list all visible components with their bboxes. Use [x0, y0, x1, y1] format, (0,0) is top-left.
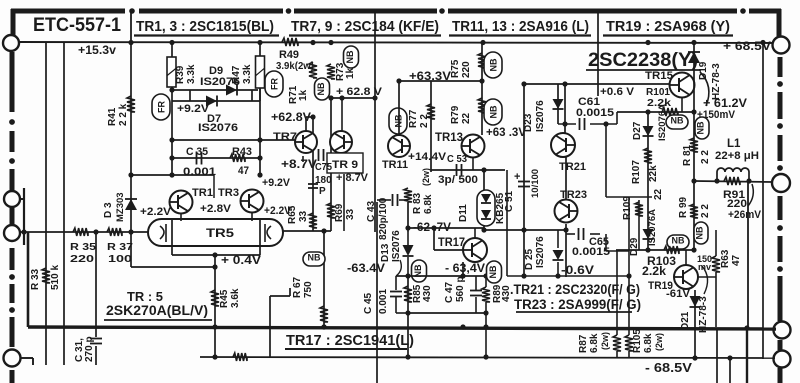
svg-text:(2w): (2w) — [600, 332, 610, 350]
svg-text:22: 22 — [461, 112, 472, 124]
svg-text:3.3k: 3.3k — [242, 64, 253, 84]
svg-text:D 25: D 25 — [524, 248, 535, 270]
svg-text:+ 0.4V: + 0.4V — [221, 255, 261, 267]
svg-text:560 p: 560 p — [455, 276, 466, 302]
svg-text:+14.4V: +14.4V — [408, 151, 447, 163]
svg-text:KB265: KB265 — [495, 192, 506, 224]
svg-text:TR7, 9 : 2SC184 (KF/E): TR7, 9 : 2SC184 (KF/E) — [291, 18, 439, 35]
svg-text:820p/100: 820p/100 — [378, 197, 389, 240]
svg-text:47: 47 — [238, 165, 249, 177]
svg-text:0.001: 0.001 — [183, 166, 216, 178]
svg-text:R79: R79 — [450, 105, 461, 124]
svg-text:D 3: D 3 — [103, 202, 114, 218]
svg-text:D27: D27 — [632, 121, 643, 140]
svg-text:TR21: TR21 — [559, 161, 586, 173]
svg-text:33: 33 — [298, 210, 309, 222]
svg-text:2 2: 2 2 — [419, 114, 430, 128]
svg-text:1k: 1k — [298, 89, 309, 101]
svg-text:R 83: R 83 — [412, 192, 423, 214]
svg-text:22: 22 — [653, 188, 664, 200]
svg-text:22k: 22k — [648, 165, 659, 182]
svg-text:270 p: 270 p — [84, 336, 95, 362]
svg-text:R87: R87 — [578, 334, 589, 353]
svg-text:47: 47 — [731, 254, 742, 266]
svg-text:C 47: C 47 — [444, 281, 455, 303]
svg-text:C 45: C 45 — [363, 292, 374, 314]
svg-text:R39: R39 — [175, 65, 186, 84]
svg-text:TR19 : 2SA968 (Y): TR19 : 2SA968 (Y) — [606, 18, 730, 35]
svg-text:R 67: R 67 — [292, 276, 303, 298]
svg-text:R43: R43 — [232, 146, 252, 158]
svg-text:R109: R109 — [622, 196, 633, 220]
svg-text:ETC-557-1: ETC-557-1 — [33, 15, 121, 36]
svg-text:R105: R105 — [632, 329, 643, 353]
svg-text:.TR21 : 2SC2320(F/ G): .TR21 : 2SC2320(F/ G) — [510, 282, 640, 297]
svg-text:TR1: TR1 — [192, 187, 213, 199]
svg-text:3.6k: 3.6k — [230, 288, 241, 308]
svg-text:R 37: R 37 — [107, 241, 133, 253]
svg-text:1k: 1k — [345, 67, 356, 79]
svg-text:(2w): (2w) — [654, 333, 664, 351]
svg-text:220: 220 — [70, 253, 94, 265]
svg-text:C 53: C 53 — [447, 153, 467, 165]
svg-text:IS2076: IS2076 — [535, 100, 546, 132]
svg-text:220: 220 — [461, 61, 472, 78]
svg-text:P: P — [319, 186, 326, 197]
svg-text:+0.6 V: +0.6 V — [600, 86, 635, 98]
svg-text:33: 33 — [345, 208, 356, 220]
svg-text:R45: R45 — [219, 289, 230, 308]
svg-text:TR15: TR15 — [645, 70, 673, 82]
svg-text:R63: R63 — [720, 249, 731, 268]
svg-text:+15.3v: +15.3v — [78, 45, 117, 57]
svg-text:C 43: C 43 — [366, 200, 377, 222]
svg-text:NB: NB — [316, 82, 326, 95]
svg-text:+63 .3V: +63 .3V — [486, 127, 526, 139]
svg-text:+ 8.7V: + 8.7V — [336, 172, 369, 184]
svg-text:10/100: 10/100 — [530, 169, 541, 198]
svg-text:NB: NB — [308, 253, 321, 263]
svg-text:TR23: TR23 — [560, 189, 587, 201]
svg-text:+2.8V: +2.8V — [200, 203, 232, 215]
svg-text:TR5: TR5 — [206, 226, 234, 240]
svg-text:R107: R107 — [631, 160, 642, 184]
svg-text:430: 430 — [422, 285, 433, 302]
svg-text:+26mV: +26mV — [728, 209, 762, 221]
svg-text:NB: NB — [671, 116, 684, 126]
svg-text:0.0015: 0.0015 — [576, 107, 614, 119]
svg-text:IS2076: IS2076 — [535, 236, 546, 268]
svg-text:TR13: TR13 — [435, 132, 463, 144]
svg-text:R 35: R 35 — [70, 241, 96, 253]
svg-text:+: + — [514, 171, 520, 183]
svg-text:0.0015: 0.0015 — [572, 246, 610, 258]
svg-text:(2w): (2w) — [421, 168, 431, 186]
svg-text:TR11, 13 : 2SA916 (L): TR11, 13 : 2SA916 (L) — [452, 18, 589, 35]
svg-text:TR : 5: TR : 5 — [127, 290, 163, 304]
svg-text:MZ303: MZ303 — [115, 192, 126, 222]
svg-text:0.001: 0.001 — [378, 289, 389, 314]
svg-text:TR7: TR7 — [273, 131, 297, 143]
svg-text:3.3k: 3.3k — [186, 64, 197, 84]
svg-text:FR: FR — [270, 78, 280, 90]
svg-text:NB: NB — [695, 226, 705, 239]
svg-text:- 68.5V: - 68.5V — [645, 361, 693, 375]
svg-text:-61V: -61V — [666, 288, 691, 300]
svg-text:IS2076: IS2076 — [391, 230, 402, 262]
svg-text:IS2076: IS2076 — [198, 122, 238, 134]
svg-text:+9.2V: +9.2V — [177, 103, 210, 115]
svg-text:TR3: TR3 — [218, 187, 239, 199]
svg-text:NB: NB — [696, 121, 706, 134]
svg-text:C 35: C 35 — [186, 146, 208, 158]
svg-text:IS2076: IS2076 — [200, 76, 240, 88]
svg-text:6.8k: 6.8k — [589, 333, 600, 353]
svg-text:FR: FR — [157, 101, 167, 113]
svg-text:IS2076A: IS2076A — [647, 209, 658, 246]
svg-text:6.8k: 6.8k — [643, 333, 654, 353]
svg-text:L1: L1 — [727, 138, 741, 150]
svg-text:2 2: 2 2 — [700, 150, 711, 164]
svg-text:TR23 : 2SA999(F/ G): TR23 : 2SA999(F/ G) — [514, 297, 641, 312]
svg-text:R75: R75 — [450, 59, 461, 78]
svg-text:22+8 μH: 22+8 μH — [715, 150, 759, 162]
svg-text:+ 68.5V: + 68.5V — [723, 41, 771, 53]
svg-text:TR 9: TR 9 — [332, 159, 358, 171]
svg-text:3p/ 500: 3p/ 500 — [438, 174, 478, 186]
svg-text:100: 100 — [108, 253, 132, 265]
svg-text:2 2 k: 2 2 k — [118, 103, 129, 126]
svg-text:2SK270A(BL/V): 2SK270A(BL/V) — [106, 303, 208, 318]
svg-text:NB: NB — [672, 236, 685, 246]
svg-text:R 99: R 99 — [678, 196, 689, 218]
svg-text:D29: D29 — [629, 237, 640, 256]
svg-text:-63.4V: -63.4V — [347, 263, 385, 275]
svg-text:C75: C75 — [315, 162, 332, 173]
svg-text:R65: R65 — [287, 205, 298, 224]
svg-text:HZ-78-3: HZ-78-3 — [711, 63, 722, 100]
svg-text:R 33: R 33 — [30, 268, 41, 290]
svg-text:NB: NB — [489, 105, 499, 118]
svg-text:TR17 : 2SC1941(L): TR17 : 2SC1941(L) — [286, 332, 414, 349]
svg-text:3.9k(2w): 3.9k(2w) — [276, 60, 314, 72]
svg-text:510 k: 510 k — [50, 265, 61, 290]
svg-text:180: 180 — [315, 175, 332, 186]
svg-text:+8.7V: +8.7V — [281, 159, 317, 171]
svg-text:TR11: TR11 — [382, 159, 408, 171]
svg-text:R 81: R 81 — [682, 144, 693, 166]
svg-text:R77: R77 — [408, 109, 419, 128]
svg-text:NB: NB — [345, 50, 355, 63]
svg-text:6.8k: 6.8k — [423, 194, 434, 214]
svg-text:D11: D11 — [458, 204, 469, 222]
svg-text:2SC2238(Y): 2SC2238(Y) — [588, 50, 698, 71]
svg-text:2.2k: 2.2k — [642, 266, 667, 278]
svg-text:D23: D23 — [523, 113, 534, 132]
svg-text:+2.2V: +2.2V — [140, 206, 172, 218]
svg-text:NB: NB — [489, 58, 499, 71]
svg-text:+9.2V: +9.2V — [262, 177, 291, 189]
svg-text:NB: NB — [488, 265, 498, 278]
svg-text:IS2076A: IS2076A — [657, 104, 668, 141]
svg-text:2 2: 2 2 — [700, 204, 711, 218]
svg-text:D13: D13 — [380, 243, 391, 262]
svg-text:TR1, 3 : 2SC1815(BL): TR1, 3 : 2SC1815(BL) — [136, 18, 274, 35]
svg-text:TR17: TR17 — [438, 237, 465, 249]
svg-text:- 63,4V: - 63,4V — [445, 263, 485, 275]
svg-text:750: 750 — [303, 281, 314, 298]
svg-text:R41: R41 — [107, 107, 118, 126]
